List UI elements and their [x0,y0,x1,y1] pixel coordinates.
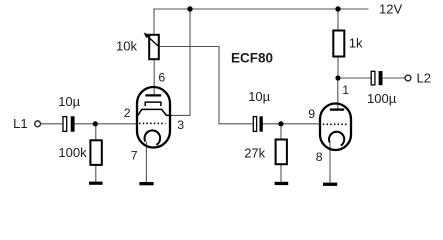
node junction dot tube2 anode [335,75,340,80]
wire 1k top lead [337,9,339,31]
tube V1 control grid g1 (dotted) [139,122,166,124]
wire L1 terminal to 10u cap [41,123,64,125]
wire 27k bottom lead [280,164,282,182]
svg-text:12V: 12V [379,1,402,16]
svg-text:10µ: 10µ [58,94,80,109]
tube V2 cathode [329,132,344,146]
svg-text:27k: 27k [244,146,265,161]
wire top supply rail [154,8,369,10]
wire 10u cap to tube1 grid pin2 [75,123,137,125]
resistor 27k body [276,140,287,165]
svg-text:L1: L1 [13,116,27,131]
node junction dot input grid [93,121,98,126]
capacitor 10u input, plus plate [63,117,67,132]
wire 100u cap to L2 terminal [383,77,405,79]
svg-text:2: 2 [124,106,131,120]
capacitor 10u input, minus plate [71,116,75,131]
ground below tube V2 cathode [323,183,337,186]
wire screen grid drop from rail [171,9,190,115]
node junction dot grid2 [278,121,283,126]
wire tube2 cathode lead to ground [329,143,331,183]
wire 1k bottom lead [337,57,339,79]
wire tube1 anode lead from pot [153,59,155,95]
wire 27k top lead [280,124,282,140]
svg-text:1k: 1k [349,35,363,50]
wire pot top lead [153,9,155,35]
svg-text:1: 1 [342,83,349,97]
ground below tube V1 cathode [139,182,153,185]
ground below 100k [89,182,103,185]
tube V1 cathode [145,130,161,144]
svg-text:L2: L2 [417,70,431,85]
svg-text:10µ: 10µ [248,89,270,104]
svg-text:100µ: 100µ [367,91,397,106]
capacitor 100u output, minus plate [379,71,383,85]
wire anode dot to 100u cap [338,77,371,79]
potentiometer 10k body [149,35,159,59]
resistor 1k body [333,31,344,57]
svg-text:6: 6 [158,71,165,85]
terminal L1 [35,121,41,127]
wire tube1 cathode lead to ground [145,142,147,183]
wire mid 10u cap to tube2 grid pin9 [263,123,321,125]
svg-text:ECF80: ECF80 [231,51,273,66]
tube V2 anode plate [330,108,344,110]
svg-text:100k: 100k [58,145,87,160]
svg-text:7: 7 [131,149,138,163]
resistor 100k body [90,140,101,165]
node junction dot rail-right [335,6,340,11]
tube V1 suppressor grid g3 [145,102,161,106]
node junction dot rail-left [187,6,192,11]
wire 100k top lead [95,124,97,141]
capacitor 10u coupling, minus plate [260,116,263,131]
tube V1 anode plate [145,94,161,96]
svg-text:3: 3 [177,118,184,132]
terminal L2 [405,75,411,81]
ground below 27k [275,182,289,185]
capacitor 100u output, plus plate [371,71,375,85]
potentiometer 10k wiper arrow [144,33,159,47]
tube V2 envelope (ECF80 triode) [320,104,351,151]
tube V1 screen grid g2 with lead to right [138,109,172,115]
capacitor 10u coupling, plus plate [253,117,256,132]
wire wiper output to corner [159,47,254,124]
tube V2 control grid (dotted) [323,123,349,125]
tube V1 envelope (ECF80 pentode) [137,87,170,148]
wire 100k bottom lead [95,165,97,183]
wire tube2 anode lead [337,78,339,110]
svg-text:8: 8 [316,150,323,164]
svg-text:10k: 10k [116,39,137,54]
svg-text:9: 9 [308,107,315,121]
